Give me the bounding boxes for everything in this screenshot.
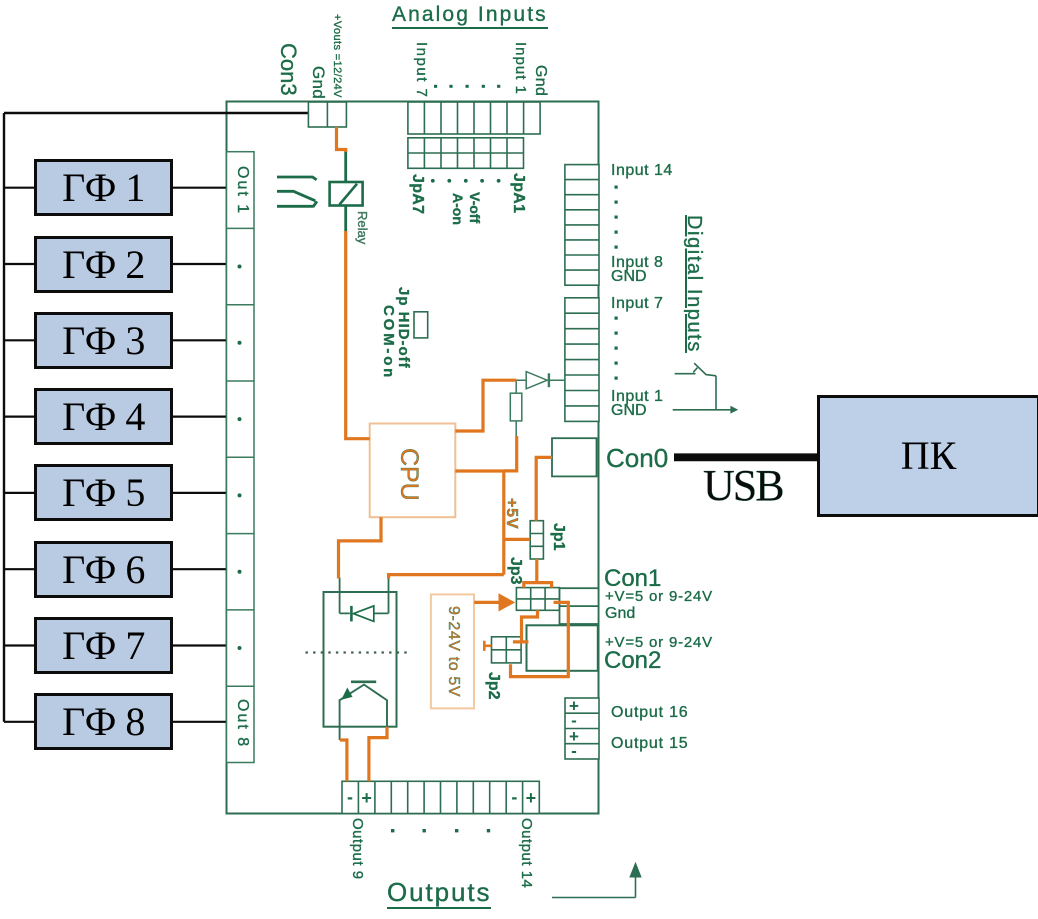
label JpA1 xyxy=(510,173,526,213)
label USB xyxy=(703,464,783,508)
node dots outputs bottom xyxy=(391,829,490,832)
connector Con1 xyxy=(560,588,599,624)
jumper Jp2 xyxy=(492,637,522,663)
label Jp3 xyxy=(507,557,523,585)
wire 5V vertical xyxy=(502,471,505,575)
wire CPU to diode junction xyxy=(455,380,516,431)
label Output 15 xyxy=(611,736,688,752)
resistor R1 xyxy=(510,393,522,421)
CPU U1 box xyxy=(370,424,456,518)
svg-text:-: - xyxy=(347,787,353,807)
DCDC 9-24V box xyxy=(431,594,474,708)
block GF4 xyxy=(34,388,173,445)
label Input 7 xyxy=(611,296,663,312)
wire Jp1 to Jp3 xyxy=(524,559,552,588)
wire CPU right to 5V xyxy=(455,469,505,472)
dashed isolation line xyxy=(306,651,409,653)
wire 5V to Jp1 xyxy=(504,538,530,541)
wire DCDC arrow xyxy=(474,601,499,604)
wire black bus vertical xyxy=(3,113,5,722)
label Input 1 xyxy=(611,389,663,405)
node dots digital top xyxy=(615,186,618,249)
label Relay xyxy=(356,211,369,244)
wire relay bottom green xyxy=(344,206,347,232)
connector digital inputs 1-7 xyxy=(565,298,599,422)
node dots Out strip xyxy=(238,265,242,651)
label A-on xyxy=(451,193,465,225)
label Input 8 xyxy=(611,255,663,271)
contact symbol xyxy=(277,177,317,207)
wire CPU bottom to LED xyxy=(339,517,382,578)
wire black bus top xyxy=(4,112,321,114)
label Output 9 xyxy=(350,818,365,880)
node dots JpA xyxy=(431,179,501,183)
label Con2 xyxy=(604,649,661,673)
label COM-on xyxy=(381,305,396,380)
label Gnd top xyxy=(310,66,327,99)
label Gnd1 xyxy=(605,606,635,622)
wire 5V to LED anode xyxy=(389,575,504,579)
label V-off xyxy=(468,192,482,223)
label Input 7 top xyxy=(414,42,429,98)
node dots top analog xyxy=(434,85,500,88)
wire Jp3 to Jp2 xyxy=(513,610,538,642)
wire stubs to GF boxes xyxy=(4,188,227,722)
connector Con3 xyxy=(308,102,346,127)
label V1 xyxy=(605,589,713,604)
wire Con3 to relay orange xyxy=(337,127,346,152)
jumper Jp3 xyxy=(516,588,559,611)
connector Con2 xyxy=(527,625,598,671)
label +Vouts xyxy=(331,14,342,98)
label Output 14 xyxy=(519,818,534,888)
connector Con0 xyxy=(552,438,597,476)
jumper Jp HID xyxy=(414,312,428,338)
svg-text:+: + xyxy=(526,788,537,808)
wire Jp2 stub xyxy=(484,641,491,651)
switch symbol xyxy=(673,363,739,413)
wire relay to CPU orange xyxy=(346,231,370,439)
block GF5 xyxy=(34,464,173,521)
label DCDC xyxy=(445,606,461,697)
wire LED cathode lead xyxy=(340,578,350,614)
wire optocoupler emitter to output xyxy=(339,727,341,740)
connector analog inputs row xyxy=(408,102,540,134)
connector digital inputs 8-14 xyxy=(565,165,599,286)
svg-text:-: - xyxy=(571,742,577,761)
jumper block JpA1-JpA7 xyxy=(408,138,524,169)
diode D1 xyxy=(516,372,565,389)
label Analog Inputs xyxy=(392,4,548,29)
label Jp2 xyxy=(485,672,501,700)
board outline xyxy=(227,102,599,814)
optocoupler U2 box xyxy=(324,592,397,727)
transistor of optocoupler xyxy=(340,682,387,727)
label V2 xyxy=(605,635,713,650)
label Gnd top2 xyxy=(532,65,548,96)
label Output 16 xyxy=(611,705,688,721)
label Jp1 xyxy=(550,523,566,551)
label GND 1 xyxy=(611,403,647,419)
block GF3 xyxy=(34,312,173,369)
wire relay top green xyxy=(344,151,347,183)
block GF2 xyxy=(34,236,173,293)
label Outputs xyxy=(387,879,491,909)
label Jp HID-off xyxy=(396,287,411,369)
label JpA7 xyxy=(409,174,425,214)
block GF6 xyxy=(34,541,173,598)
svg-text:-: - xyxy=(511,787,517,807)
jumper Jp1 xyxy=(530,521,543,559)
wire Con0 to Jp1 xyxy=(536,457,552,520)
wire resistor leads green xyxy=(515,380,517,436)
wire Jp3 to Jp2 loop xyxy=(511,602,569,676)
node dots digital bottom xyxy=(615,317,618,380)
connector Output15-16 xyxy=(565,698,599,759)
block PK xyxy=(817,395,1038,517)
wire USB xyxy=(674,453,818,461)
block GF8 xyxy=(34,693,173,750)
bottom right arrow xyxy=(552,862,642,898)
wire optocoupler collector to output xyxy=(369,727,387,782)
label CPU xyxy=(396,448,421,501)
connector Out1-Out8 strip xyxy=(227,152,255,763)
label +5V xyxy=(503,498,519,529)
label Out 1 xyxy=(234,166,250,215)
label Input 1 top xyxy=(513,42,528,95)
label Con1 xyxy=(604,567,661,591)
label Out 8 xyxy=(234,699,250,748)
svg-text:+: + xyxy=(361,788,372,808)
wire LED anode lead xyxy=(374,579,389,614)
label Digital Inputs xyxy=(684,215,704,353)
wire resistor to 5V junction xyxy=(504,436,517,471)
label Input 14 xyxy=(611,163,673,179)
block GF7 xyxy=(34,617,173,674)
label GND 8 xyxy=(611,269,647,285)
block GF1 xyxy=(34,159,173,216)
label Con3 xyxy=(277,43,299,96)
connector outputs strip xyxy=(342,781,539,813)
relay K1 xyxy=(330,182,363,206)
LED of optocoupler xyxy=(351,606,373,622)
label Con0 xyxy=(606,445,668,471)
